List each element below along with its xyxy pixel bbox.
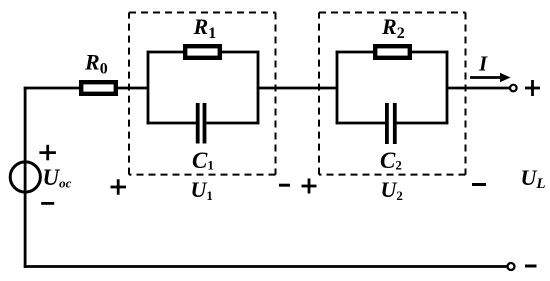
wire: loop1 rectangle (R1 parallel C1) bbox=[147, 51, 260, 125]
svg-text:U2: U2 bbox=[381, 177, 403, 203]
svg-text:R0: R0 bbox=[84, 50, 108, 78]
svg-text:Uoc: Uoc bbox=[43, 165, 72, 191]
dashed box 1 bbox=[129, 13, 276, 175]
output terminal bottom (node -) bbox=[508, 263, 515, 270]
svg-text:C2: C2 bbox=[380, 148, 402, 173]
wire: loop2 rectangle (R2 parallel C2) bbox=[336, 51, 449, 125]
svg-text:U1: U1 bbox=[191, 177, 213, 203]
wire: left vertical wire from top corner through source to bottom corner bbox=[24, 87, 27, 268]
wire: top horizontal main wire, left segment (source corner to R0 and loop1) bbox=[24, 87, 149, 90]
capacitor C1 plates bbox=[196, 103, 207, 144]
resistor R1 bbox=[185, 46, 220, 58]
output terminal top (node +) bbox=[510, 85, 517, 92]
current arrow I bbox=[470, 73, 511, 83]
capacitor C2 plates bbox=[385, 103, 397, 144]
wire: right segment from loop2 to output terminal bbox=[446, 87, 510, 90]
wire: middle segment between loop1 and loop2 bbox=[257, 87, 339, 90]
minus sign at bottom output bbox=[525, 265, 537, 268]
svg-text:R2: R2 bbox=[381, 14, 405, 42]
minus sign at source bbox=[41, 202, 54, 205]
svg-text:R1: R1 bbox=[193, 14, 217, 42]
svg-text:C1: C1 bbox=[192, 148, 214, 173]
minus sign right of box 1 bbox=[279, 184, 290, 187]
minus sign right of box 2 bbox=[472, 183, 486, 186]
resistor R2 bbox=[375, 46, 410, 58]
svg-text:UL: UL bbox=[521, 165, 546, 192]
svg-text:I: I bbox=[478, 52, 488, 76]
voltage source U_oc circle bbox=[10, 162, 40, 192]
plus sign at source bbox=[39, 145, 56, 161]
plus sign left of box 2 bbox=[302, 179, 317, 194]
plus sign left of box 1 bbox=[111, 179, 127, 194]
plus sign at output bbox=[525, 80, 540, 96]
resistor R0 bbox=[81, 82, 116, 94]
wire: bottom return wire bbox=[24, 265, 507, 268]
dashed box 2 bbox=[319, 13, 466, 175]
